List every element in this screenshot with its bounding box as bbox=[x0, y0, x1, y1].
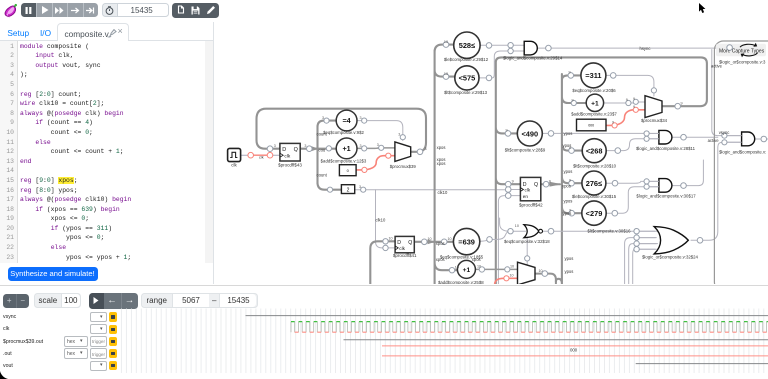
wire eq639 out to nor input bbox=[480, 231, 526, 241]
svg-text:3: 3 bbox=[360, 144, 362, 148]
clock cycle counter bbox=[102, 3, 170, 18]
svg-text:9: 9 bbox=[612, 121, 614, 125]
wire clk10 from slice to dff42 clk bbox=[355, 189, 521, 191]
svg-text:10: 10 bbox=[539, 269, 543, 273]
wave follow buttons bbox=[89, 293, 138, 309]
svg-text:More Capture Types: More Capture Types bbox=[719, 48, 765, 54]
svg-text:$lt$composite.v:28$10: $lt$composite.v:28$10 bbox=[573, 163, 617, 168]
wire and-vout out bbox=[755, 138, 768, 140]
wire xpos next into dff41 D bbox=[370, 241, 395, 285]
svg-text:3: 3 bbox=[377, 143, 379, 147]
svg-text:=311: =311 bbox=[585, 71, 601, 80]
wire le276 out to and30 in1 bbox=[606, 181, 659, 183]
wire xpos mux out going down bbox=[535, 274, 556, 285]
wire le528 out to and29 in1 bbox=[480, 44, 524, 46]
svg-text:9: 9 bbox=[681, 102, 683, 106]
svg-text:10: 10 bbox=[428, 237, 432, 241]
.out bus trace bbox=[382, 346, 768, 356]
svg-text:xpos: xpos bbox=[437, 145, 446, 150]
svg-text:$procdff$42: $procdff$42 bbox=[519, 203, 543, 208]
svg-text:$logic_and$composite.v:29$14: $logic_and$composite.v:29$14 bbox=[503, 56, 563, 61]
dff42 bbox=[519, 177, 543, 207]
svg-text:9: 9 bbox=[569, 71, 571, 75]
svg-text:3: 3 bbox=[304, 144, 306, 148]
wire const0 to mux39 in2 (red) bbox=[356, 156, 395, 170]
svg-text:3: 3 bbox=[398, 133, 400, 137]
svg-text:$add$composite.v:23$7: $add$composite.v:23$7 bbox=[571, 111, 617, 116]
svg-text:<575: <575 bbox=[459, 74, 476, 83]
svg-text:$add$composite.v:25$8: $add$composite.v:25$8 bbox=[438, 280, 484, 284]
wire add25 out to xpos mux in1 bbox=[475, 268, 517, 270]
range group bbox=[141, 293, 258, 308]
svg-text:Q: Q bbox=[294, 147, 298, 153]
svg-text:$procmux$34: $procmux$34 bbox=[641, 118, 668, 123]
ypos next bus (mux34 out along top into dff42 D loop) bbox=[496, 57, 707, 285]
svg-text:$lt$composite.v:29$13: $lt$composite.v:29$13 bbox=[444, 90, 488, 95]
net name labels bbox=[259, 46, 729, 274]
wire and30 out bbox=[673, 160, 704, 186]
svg-text:9: 9 bbox=[512, 180, 514, 184]
svg-text:$add$composite.v:12$3: $add$composite.v:12$3 bbox=[321, 159, 367, 164]
port on hsync wire over popup bbox=[727, 45, 733, 51]
svg-text:000: 000 bbox=[570, 347, 578, 352]
svg-text:$procdff$41: $procdff$41 bbox=[393, 253, 417, 258]
svg-text:=639: =639 bbox=[458, 237, 475, 246]
wire lt268 out to and28 in2 bbox=[606, 139, 659, 151]
waveform display bbox=[120, 305, 768, 375]
svg-text:$le$composite.v:29$12: $le$composite.v:29$12 bbox=[444, 57, 489, 62]
svg-text:clk: clk bbox=[525, 188, 531, 193]
svg-text:ypos: ypos bbox=[565, 269, 574, 274]
procmux39.out trace bbox=[344, 339, 768, 341]
svg-text:Q: Q bbox=[534, 182, 538, 188]
wire and28 out (active) bbox=[673, 136, 718, 138]
svg-text:+1: +1 bbox=[342, 144, 350, 153]
svg-text:10: 10 bbox=[477, 265, 481, 269]
svg-text:ypos: ypos bbox=[564, 198, 573, 203]
svg-text:9: 9 bbox=[572, 98, 574, 102]
and29 hsync gate bbox=[503, 41, 563, 60]
svg-text:9: 9 bbox=[549, 180, 551, 184]
svg-text:$le$composite.v:30$15: $le$composite.v:30$15 bbox=[572, 194, 617, 199]
wire clk10 branch to dff41 clk bbox=[376, 190, 396, 248]
svg-text:active: active bbox=[711, 63, 723, 68]
comparator eq4 bbox=[323, 110, 364, 135]
xpos bus vertical with taps bbox=[435, 45, 458, 285]
svg-text:9: 9 bbox=[569, 146, 571, 150]
svg-text:10: 10 bbox=[389, 237, 393, 241]
constant 0 bbox=[339, 165, 356, 176]
wire const000 to mux34 in2 (red) bbox=[606, 110, 645, 126]
mux procmux39 bbox=[390, 142, 417, 169]
svg-text:$eq$composite.v:32$18: $eq$composite.v:32$18 bbox=[504, 239, 550, 244]
svg-text:$eq$composite.v:9$2: $eq$composite.v:9$2 bbox=[323, 130, 364, 135]
svg-text:10: 10 bbox=[444, 40, 448, 44]
wire nor32 out to xpos mux select bbox=[526, 237, 528, 265]
svg-text:<268: <268 bbox=[586, 147, 603, 156]
wires or32 lower inputs from below bbox=[625, 238, 658, 285]
svg-text:+1: +1 bbox=[463, 267, 471, 274]
wave zoom buttons bbox=[3, 294, 29, 308]
svg-text:clk10: clk10 bbox=[438, 190, 448, 195]
svg-text:$eq$composite.v:20$6: $eq$composite.v:20$6 bbox=[572, 88, 616, 93]
svg-text:$procdff$43: $procdff$43 bbox=[278, 162, 302, 167]
wire add23 out to mux34 in1 bbox=[604, 102, 645, 103]
svg-text:vsync: vsync bbox=[719, 130, 730, 135]
comparator lt268 bbox=[573, 139, 617, 169]
svg-text:D: D bbox=[282, 147, 286, 153]
sim control buttons bbox=[21, 3, 98, 17]
svg-text:xpos: xpos bbox=[472, 257, 481, 262]
svg-text:9: 9 bbox=[633, 97, 635, 101]
adder add23 bbox=[571, 94, 617, 116]
svg-text:clk: clk bbox=[284, 153, 290, 159]
svg-text:3: 3 bbox=[359, 185, 361, 189]
more capture types popup bbox=[716, 43, 766, 58]
clk trace bbox=[291, 322, 767, 333]
svg-text:ypos: ypos bbox=[565, 256, 574, 261]
svg-text:10: 10 bbox=[455, 266, 459, 270]
adder add12 bbox=[321, 138, 367, 164]
wire lt490 out to and28 in1 bbox=[542, 132, 659, 134]
svg-text:ypos: ypos bbox=[562, 183, 571, 188]
svg-text:10: 10 bbox=[515, 224, 519, 228]
junction flare dff42 Q bbox=[550, 182, 563, 187]
svg-text:9: 9 bbox=[569, 179, 571, 183]
svg-text:$lt$composite.v:28$9: $lt$composite.v:28$9 bbox=[505, 148, 546, 153]
svg-text:hsync: hsync bbox=[640, 46, 651, 51]
wire nor32 out to or32 in1 bbox=[543, 230, 657, 232]
svg-text:clk10: clk10 bbox=[376, 218, 386, 223]
svg-text:3: 3 bbox=[322, 116, 324, 120]
svg-text:$logic_and$composite.v:: $logic_and$composite.v: bbox=[719, 149, 766, 154]
wire clk input gray segment bbox=[241, 154, 248, 156]
svg-text:xpos: xpos bbox=[436, 241, 445, 246]
junction flare dff41 Q bbox=[428, 239, 436, 244]
comparator lt279 bbox=[582, 201, 631, 234]
and-vout gate bbox=[719, 132, 766, 154]
app logo bbox=[2, 3, 18, 19]
adder add25 bbox=[438, 260, 484, 285]
wire eq311 out to mux34 select bbox=[606, 75, 654, 96]
comparator eq639 bbox=[440, 228, 484, 259]
port width labels bbox=[274, 40, 683, 278]
svg-text:+1: +1 bbox=[591, 100, 599, 107]
svg-text:clk: clk bbox=[231, 163, 237, 168]
mux xpos (procmux) bbox=[518, 262, 536, 285]
svg-text:9: 9 bbox=[633, 105, 635, 109]
svg-text:count: count bbox=[317, 173, 328, 178]
svg-text:xpos: xpos bbox=[436, 257, 445, 262]
and30 gate bbox=[636, 179, 696, 199]
svg-text:10: 10 bbox=[510, 265, 514, 269]
wire or32 out up right side to and-vout in2 bbox=[691, 142, 742, 240]
svg-text:$procmux$39: $procmux$39 bbox=[390, 164, 417, 169]
scale group bbox=[34, 293, 81, 308]
wire eq4 out to mux39 select bbox=[357, 121, 403, 141]
svg-text:=4: =4 bbox=[342, 116, 350, 125]
svg-text:ypos: ypos bbox=[564, 169, 573, 174]
svg-text:clk: clk bbox=[399, 246, 405, 251]
comparator lt490 bbox=[505, 121, 546, 153]
wire clk red segment bbox=[254, 154, 268, 156]
wire lt575 out to and29 in2 bbox=[479, 51, 524, 78]
svg-text:$logic_and$composite.v:28$11: $logic_and$composite.v:28$11 bbox=[636, 146, 696, 151]
vout trace bbox=[636, 363, 768, 365]
svg-text:ypos: ypos bbox=[564, 131, 573, 136]
wire clk into dff43 clk pin bbox=[273, 154, 280, 156]
svg-text:count: count bbox=[317, 131, 328, 136]
comparator le276 bbox=[572, 171, 617, 199]
wire dff42 Q to ypos bus bbox=[541, 183, 560, 185]
constant 000 bbox=[577, 119, 607, 131]
svg-text:clk: clk bbox=[259, 156, 264, 160]
svg-text:9: 9 bbox=[626, 98, 628, 102]
ypos bus vertical with taps bbox=[556, 74, 586, 285]
svg-text:active: active bbox=[708, 138, 720, 143]
svg-text:en: en bbox=[523, 194, 529, 199]
wire dff41 Q through xpos bus to eq639 bbox=[414, 241, 453, 243]
svg-text:D: D bbox=[397, 240, 401, 246]
svg-text:9: 9 bbox=[506, 129, 508, 133]
svg-text:528≤: 528≤ bbox=[459, 41, 475, 50]
dff43 bbox=[278, 143, 302, 167]
wire count feedback loop (mux39 out to dff43 D) bbox=[257, 109, 427, 152]
wire lt279 out to and30 in2 bbox=[606, 187, 659, 214]
svg-text:10: 10 bbox=[444, 72, 448, 76]
comparator eq311 bbox=[572, 63, 616, 93]
svg-text:3: 3 bbox=[274, 144, 276, 148]
svg-text:<279: <279 bbox=[586, 209, 603, 218]
count bus vertical with taps to eq4 and slice bbox=[318, 121, 342, 190]
wire and29 out hsync long bbox=[537, 47, 763, 49]
file buttons bbox=[172, 3, 219, 18]
and28 gate bbox=[636, 130, 696, 151]
port circles bbox=[248, 42, 767, 281]
slice count[2] bbox=[341, 185, 354, 194]
svg-text:3: 3 bbox=[360, 116, 362, 120]
svg-text:2: 2 bbox=[347, 188, 350, 194]
junction flare dff43 Q bbox=[312, 146, 319, 151]
input device clk bbox=[228, 148, 241, 161]
or32 gate bbox=[637, 227, 699, 260]
svg-text:276≤: 276≤ bbox=[586, 179, 602, 188]
wire nor feed from ypos loop bbox=[500, 218, 507, 231]
comparator le528 bbox=[444, 32, 489, 62]
dff41 bbox=[393, 236, 417, 258]
nor gate eq32-18 bbox=[504, 225, 550, 244]
svg-text:<490: <490 bbox=[521, 129, 538, 138]
svg-text:cou: cou bbox=[319, 148, 326, 153]
wire vsync vertical to and-vout in1 bbox=[712, 50, 742, 136]
mux procmux34 bbox=[641, 96, 668, 123]
bottom-left cursor fragment bbox=[0, 371, 8, 379]
svg-text:$logic_and$composite.v:30$17: $logic_and$composite.v:30$17 bbox=[636, 193, 696, 198]
wire dff43 Q to count bus and add12 bbox=[300, 148, 336, 150]
wire red into xpos mux in2 bbox=[495, 278, 518, 285]
svg-text:9: 9 bbox=[569, 209, 571, 213]
svg-text:$logic_or$composite.v:32$24: $logic_or$composite.v:32$24 bbox=[642, 255, 699, 260]
svg-text:10: 10 bbox=[510, 274, 514, 278]
svg-text:xpos: xpos bbox=[437, 161, 446, 166]
svg-text:10: 10 bbox=[448, 237, 452, 241]
wire add12 out to mux39 in1 bbox=[357, 147, 395, 150]
svg-text:000: 000 bbox=[588, 124, 594, 128]
io box hsync right bbox=[714, 41, 768, 291]
comparator lt575 bbox=[444, 66, 488, 95]
mouse cursor bbox=[698, 3, 707, 15]
svg-text:3: 3 bbox=[425, 147, 427, 151]
wire dff42 en from below bbox=[498, 196, 520, 285]
time grid bbox=[121, 309, 763, 374]
svg-text:$lt$composite.v:30$16: $lt$composite.v:30$16 bbox=[588, 229, 632, 234]
svg-text:Q: Q bbox=[408, 240, 412, 246]
svg-text:$logic_or$composite.v:3: $logic_or$composite.v:3 bbox=[719, 59, 766, 64]
vsync trace bbox=[246, 315, 768, 317]
